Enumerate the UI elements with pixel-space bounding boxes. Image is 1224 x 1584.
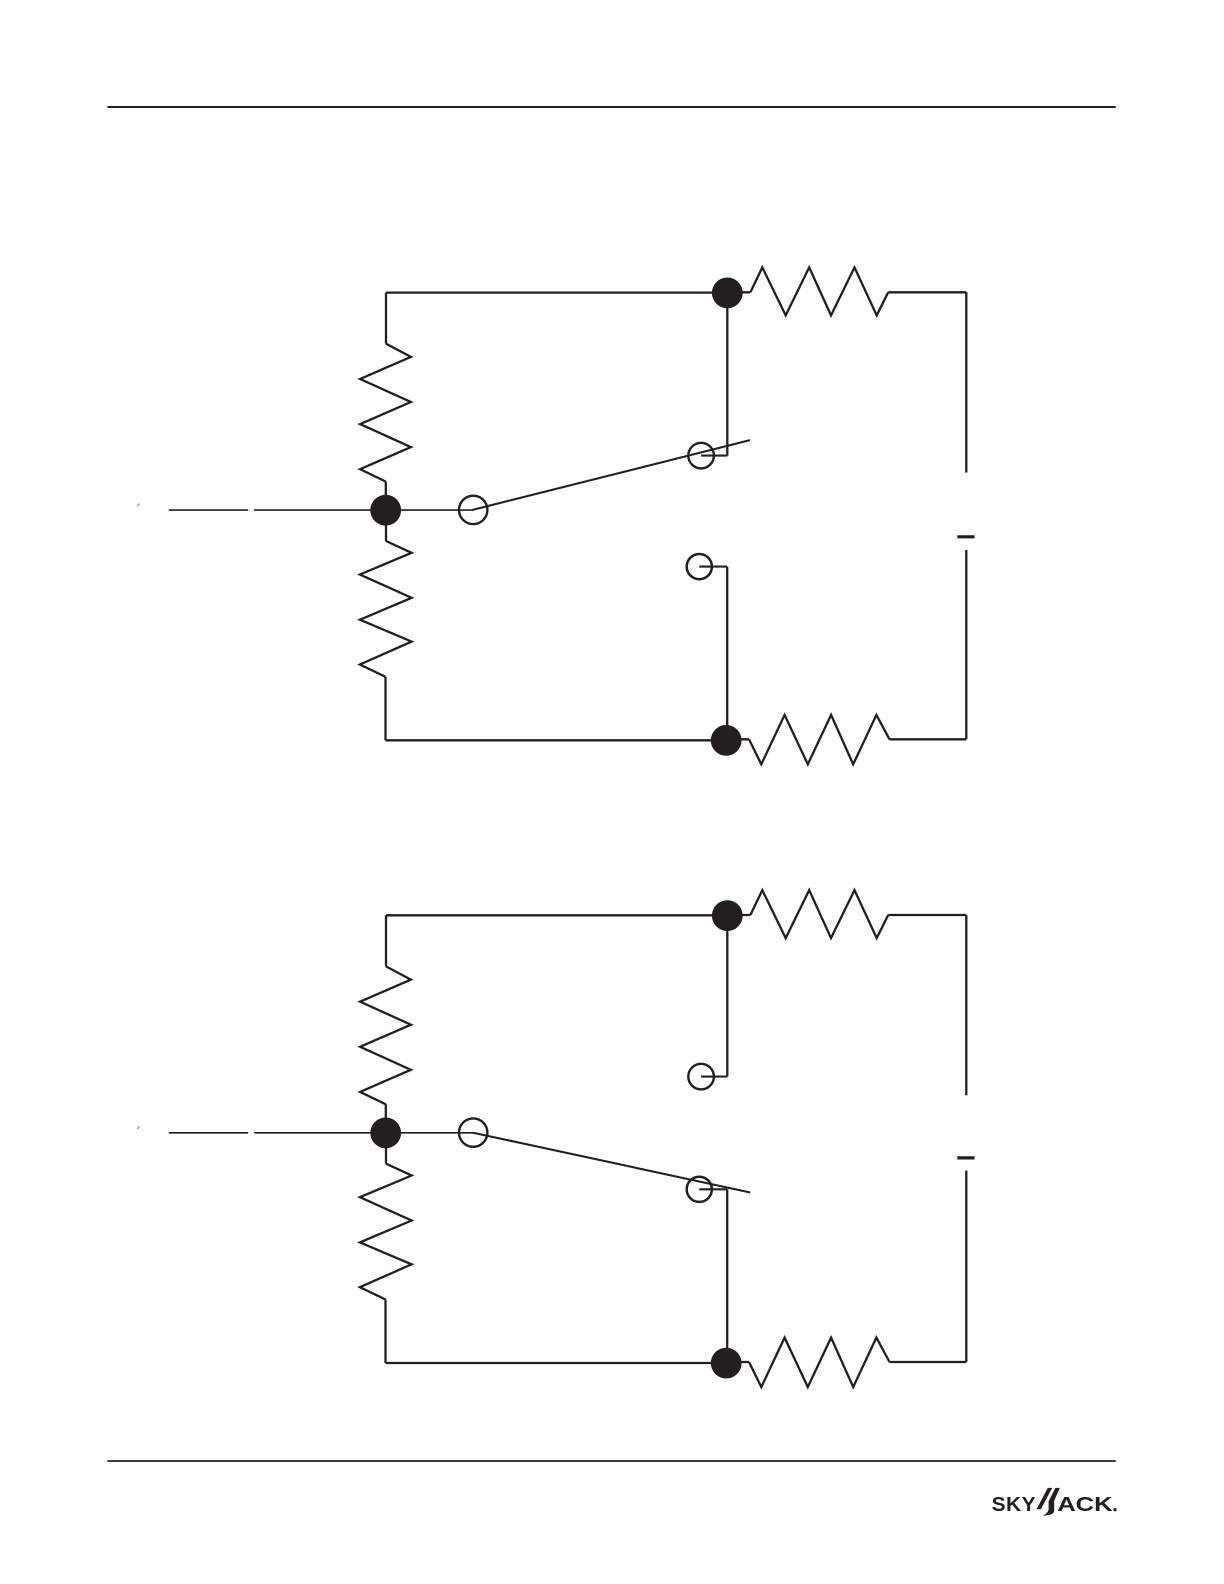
junction: top node dot (circuit 1)	[712, 278, 743, 309]
resistor: bottom right horizontal zigzag (circuit 2)	[749, 1338, 890, 1387]
wire: segment from wiper node to lower zigzag (circuit 1)	[385, 510, 387, 541]
junction: bottom node dot (circuit 2)	[711, 1348, 742, 1379]
wire: left rail lower segment (circuit 1)	[384, 677, 386, 741]
wire: segment from upper zigzag to wiper node (circuit 2)	[385, 1104, 387, 1133]
switch common pole contact circle (circuit 2)	[459, 1118, 487, 1146]
battery plate dash (circuit 2)	[957, 1156, 974, 1159]
resistor: bottom right horizontal zigzag (circuit 1)	[749, 715, 890, 764]
resistor: upper half of left potentiometer zigzag (circuit 2)	[360, 966, 411, 1104]
wire: stub from upper switch contact to vertical (circuit 1)	[701, 455, 727, 457]
wire: left input lead segment 1 (circuit 1)	[169, 509, 248, 511]
wire: right rail upper segment, battery positive lead (circuit 1)	[965, 292, 967, 472]
wire: vertical from top node down to upper switch contact (circuit 2)	[726, 916, 728, 1077]
SKYJACK logo J with slash 2	[1042, 1488, 1060, 1516]
battery plate dash (circuit 1)	[957, 535, 974, 538]
wire: segment from upper zigzag to wiper node (circuit 1)	[385, 482, 387, 511]
wire: top wire from left rail to top node (circuit 1)	[386, 291, 727, 293]
SKYJACK logo slash 1	[1037, 1488, 1053, 1509]
wire: left rail lower segment (circuit 2)	[384, 1300, 386, 1364]
wire: stub from top node to top-right resistor (circuit 1)	[727, 291, 750, 293]
wire: top wire from left rail to top node (circuit 2)	[386, 914, 727, 916]
SKYJACK logo wordmark	[992, 1488, 1117, 1516]
junction: wiper node dot (circuit 1)	[370, 495, 401, 526]
svg-text:SKY: SKY	[992, 1493, 1036, 1515]
junction: wiper node dot (circuit 2)	[370, 1118, 401, 1149]
resistor: lower half of left potentiometer zigzag (circuit 1)	[360, 541, 412, 677]
wire: stub from lower switch contact to vertical (circuit 2)	[699, 1188, 727, 1190]
top horizontal rule	[108, 106, 1116, 108]
wire: from right rail to bottom-right resistor (circuit 1)	[890, 738, 967, 740]
switch lower throw contact circle (circuit 1)	[687, 554, 712, 579]
wire: vertical from top node down to upper switch contact (circuit 1)	[726, 293, 728, 456]
switch upper throw contact circle (circuit 2)	[688, 1064, 714, 1090]
wire: right rail lower segment, battery negative lead (circuit 2)	[965, 1171, 967, 1363]
wire: stub from lower switch contact to vertical (circuit 1)	[699, 566, 727, 568]
wire: bottom wire from left rail to bottom node (circuit 2)	[386, 1362, 727, 1364]
resistor: top right horizontal zigzag (circuit 1)	[750, 267, 888, 315]
wire: from right rail to bottom-right resistor (circuit 2)	[890, 1361, 967, 1363]
wire: right rail lower segment, battery negative lead (circuit 1)	[965, 550, 967, 739]
resistor: upper half of left potentiometer zigzag (circuit 1)	[360, 344, 411, 482]
stray tick mark left of lead (circuit 2)	[137, 1126, 139, 1129]
wire: from top-right resistor to right rail (circuit 1)	[888, 291, 966, 293]
wire: stub from bottom-right resistor to bottom node (circuit 2)	[726, 1361, 749, 1363]
wire: left rail upper segment (circuit 1)	[385, 293, 387, 344]
wire: vertical from lower switch contact down to bottom node (circuit 2)	[726, 1189, 728, 1363]
resistor: top right horizontal zigzag (circuit 2)	[750, 890, 888, 938]
wire: right rail upper segment, battery positive lead (circuit 2)	[965, 915, 967, 1095]
resistor: lower half of left potentiometer zigzag (circuit 2)	[360, 1164, 412, 1300]
wire: from top-right resistor to right rail (circuit 2)	[888, 914, 966, 916]
wire: bottom wire from left rail to bottom node (circuit 1)	[386, 739, 727, 741]
junction: top node dot (circuit 2)	[712, 900, 743, 931]
wire: stub from upper switch contact to vertical (circuit 2)	[701, 1076, 727, 1078]
wire: vertical from lower switch contact down to bottom node (circuit 1)	[726, 567, 728, 741]
wire: stub from bottom-right resistor to bottom node (circuit 1)	[726, 738, 749, 740]
switch upper throw contact circle (circuit 1)	[688, 443, 714, 469]
wire: left input lead segment 1 (circuit 2)	[169, 1132, 248, 1134]
junction: bottom node dot (circuit 1)	[711, 725, 742, 756]
SKYJACK logo trademark period	[1114, 1508, 1117, 1511]
stray tick mark left of lead (circuit 1)	[137, 504, 139, 507]
bottom horizontal rule	[108, 1460, 1116, 1462]
wire: stub from top node to top-right resistor (circuit 2)	[727, 914, 750, 916]
switch blade thrown up toward upper contact (circuit 1)	[473, 440, 751, 510]
switch blade thrown down toward lower contact (circuit 2)	[473, 1133, 751, 1193]
wire: left input lead segment 2 into wiper node (circuit 1)	[254, 509, 473, 511]
switch common pole contact circle (circuit 1)	[459, 496, 487, 524]
switch lower throw contact circle (circuit 2)	[687, 1177, 712, 1202]
svg-text:ACK: ACK	[1057, 1493, 1113, 1516]
wire: left rail upper segment (circuit 2)	[385, 915, 387, 966]
wire: left input lead segment 2 into wiper node (circuit 2)	[254, 1132, 473, 1134]
wire: segment from wiper node to lower zigzag (circuit 2)	[385, 1133, 387, 1164]
